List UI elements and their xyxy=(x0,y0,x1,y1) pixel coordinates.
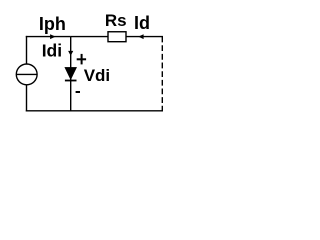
wire left branch bottom (current source to bottom node) xyxy=(26,85,28,112)
wire top-left horizontal (source node to diode node) xyxy=(26,36,71,38)
svg-text:Id: Id xyxy=(134,13,150,33)
wire bottom horizontal return xyxy=(26,110,163,112)
svg-text:Rs: Rs xyxy=(105,11,127,30)
wire right branch dashed (external terminal connection) xyxy=(161,37,163,111)
diode D (Vdi) xyxy=(65,67,77,80)
arrow Id (output current, leftward) xyxy=(138,34,143,39)
wire left branch top (top node to current source) xyxy=(26,36,28,65)
current source Iph (circle with horizontal bar) xyxy=(16,64,37,85)
svg-text:Iph: Iph xyxy=(39,14,66,34)
wire top middle horizontal (diode node to resistor left pin) xyxy=(71,36,108,38)
wire resistor right pin to top-right corner xyxy=(126,36,163,38)
wire middle branch (diode branch) xyxy=(70,37,72,112)
label - (diode cathode polarity) xyxy=(76,91,80,93)
label + (diode anode polarity) xyxy=(77,54,86,65)
arrow Iph (photocurrent direction, rightward on top wire) xyxy=(50,34,56,39)
arrow Idi (diode current, downward) xyxy=(68,51,73,56)
resistor Rs (box) xyxy=(108,32,126,42)
svg-text:Vdi: Vdi xyxy=(84,66,110,85)
svg-text:Idi: Idi xyxy=(42,41,62,61)
